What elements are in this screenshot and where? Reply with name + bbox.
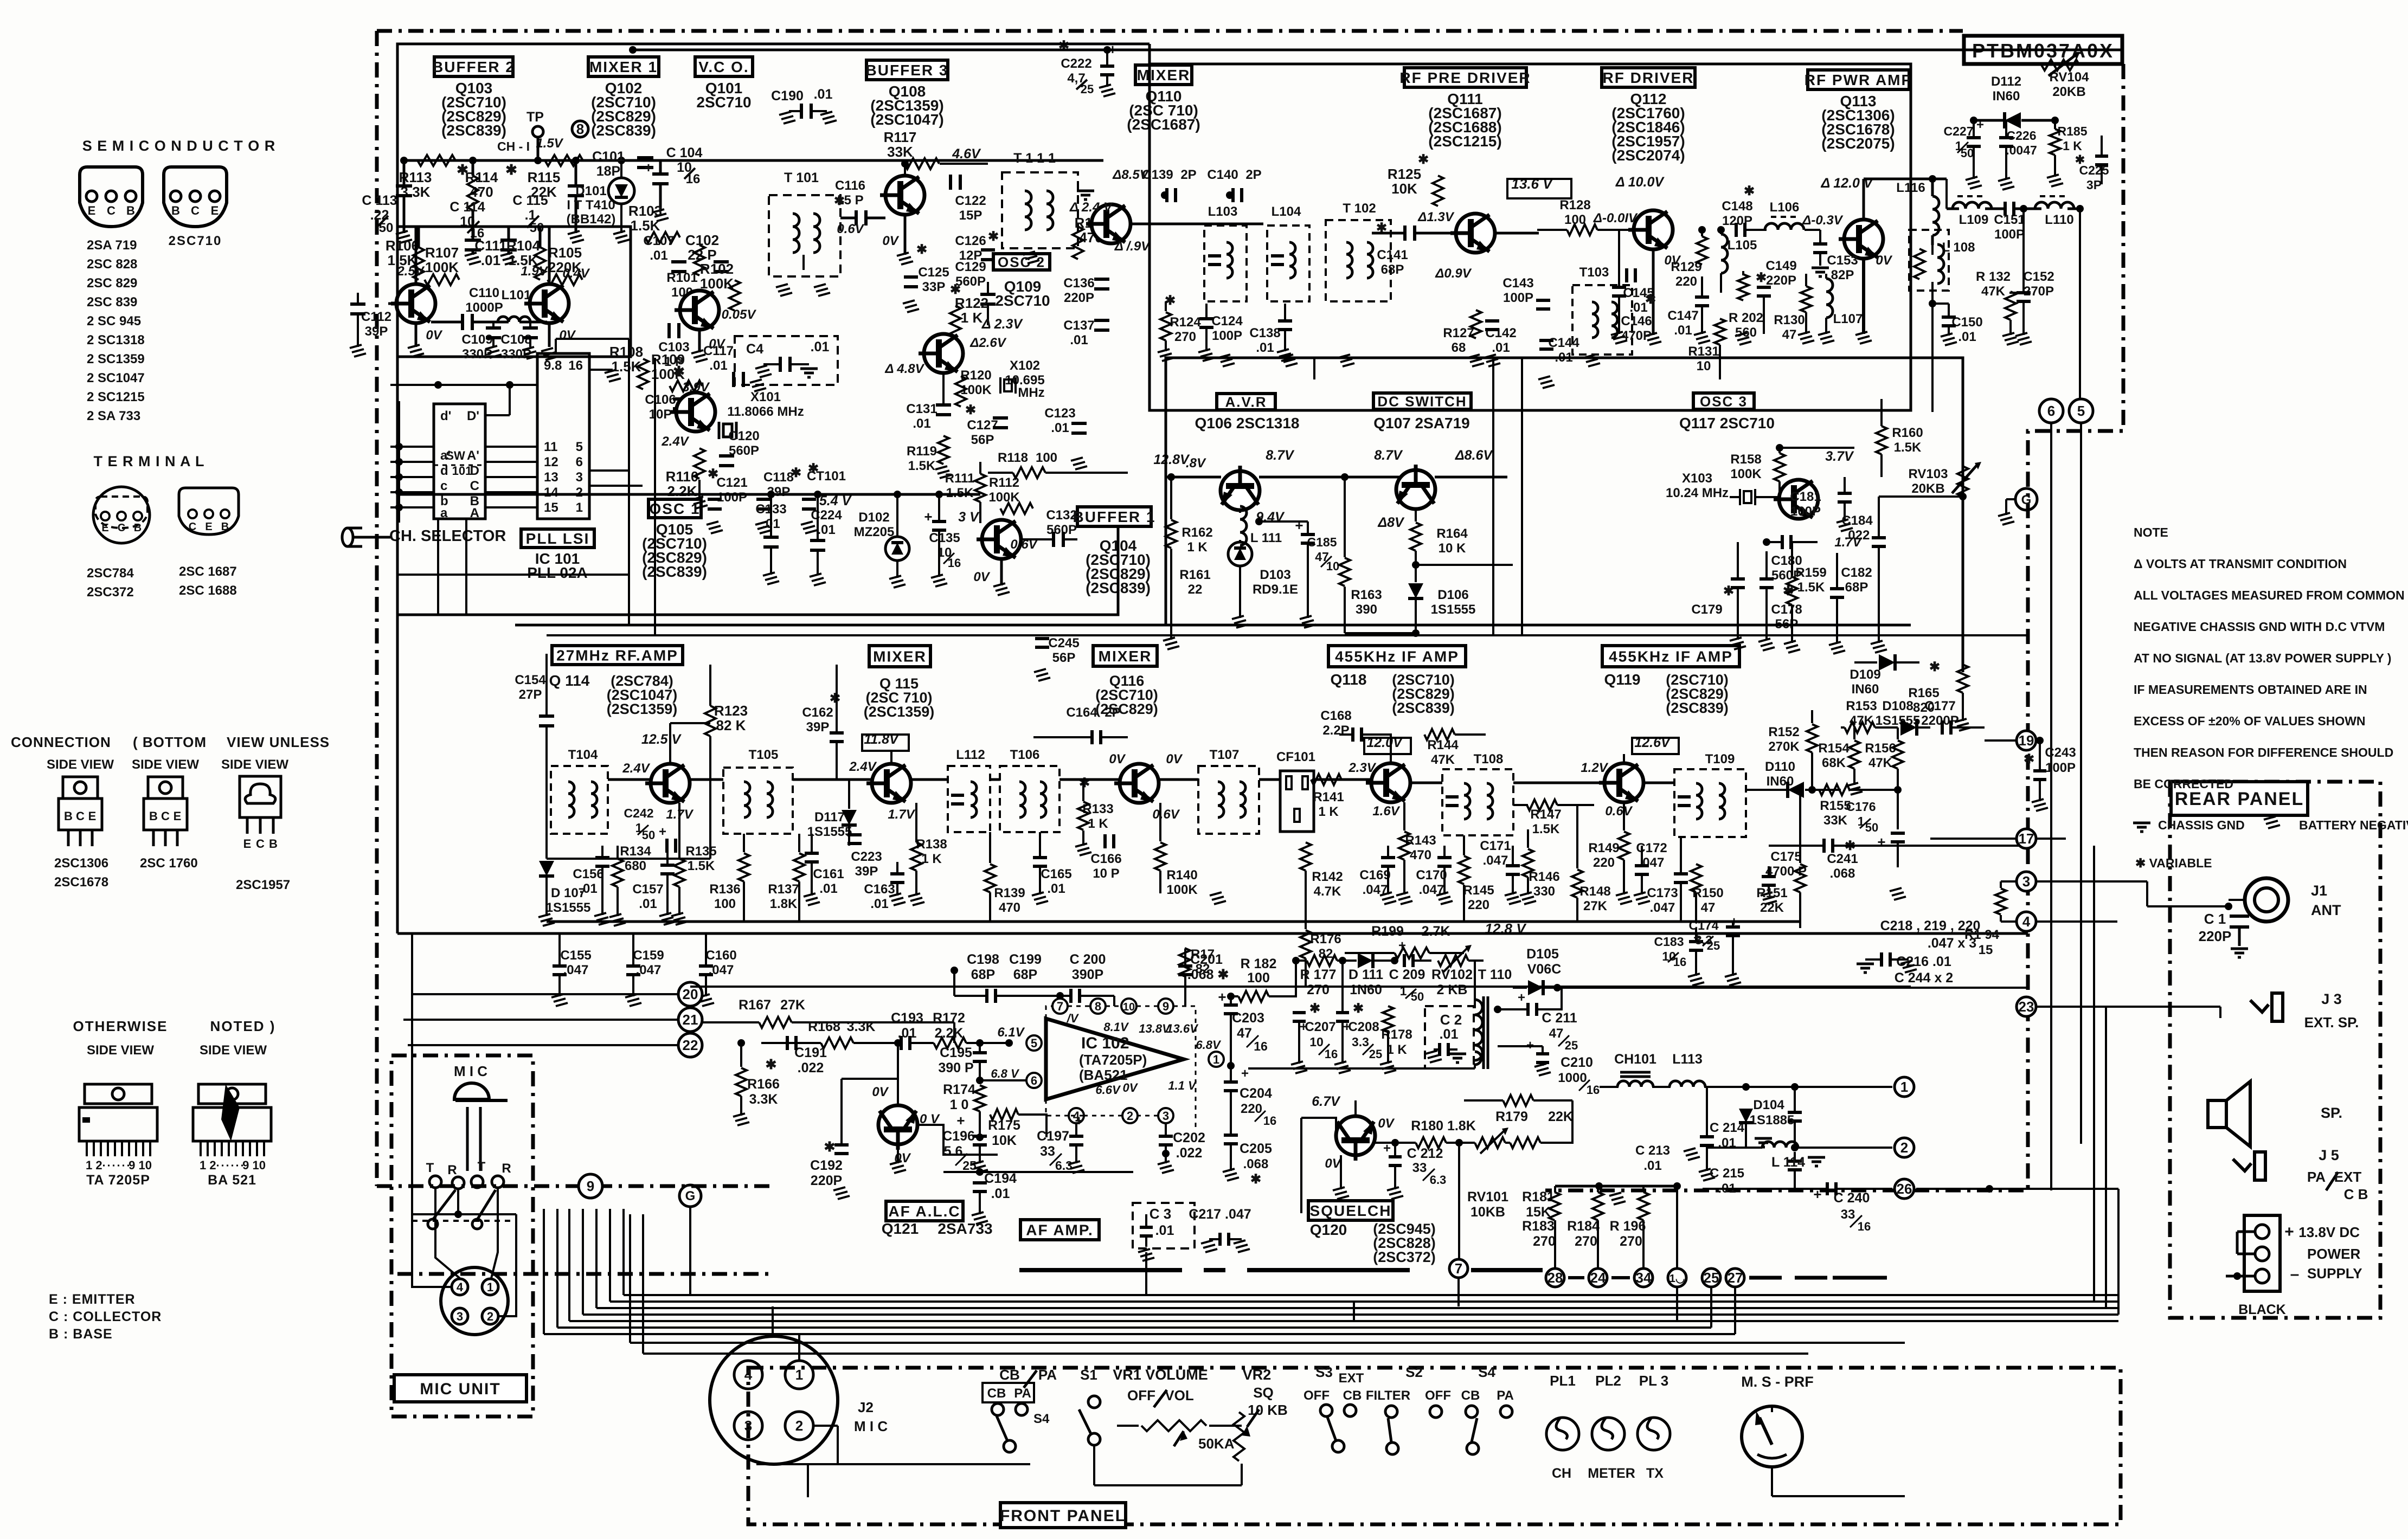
main schematic dash-dot border left xyxy=(375,31,379,1186)
svg-text:MHz: MHz xyxy=(1018,385,1044,400)
svg-text:1.1 V: 1.1 V xyxy=(1168,1079,1197,1092)
wire q107 out xyxy=(1435,476,1507,479)
svg-text:(2SC2074): (2SC2074) xyxy=(1611,147,1685,164)
svg-text:68P: 68P xyxy=(1381,262,1404,277)
transistor Q104 xyxy=(977,520,1021,559)
svg-text:2: 2 xyxy=(487,1310,493,1323)
svg-text:C179: C179 xyxy=(1691,602,1722,617)
svg-text:C243: C243 xyxy=(2045,745,2076,760)
svg-text:E: E xyxy=(174,809,182,823)
gnd Q104 xyxy=(1000,559,1003,585)
svg-text:SP.: SP. xyxy=(2321,1105,2342,1121)
svg-text:1: 1 xyxy=(1213,1053,1219,1066)
svg-text:20KB: 20KB xyxy=(1911,481,1944,496)
svg-text:CB: CB xyxy=(999,1367,1020,1383)
wire Q103 collector xyxy=(415,227,418,284)
svg-text:220P: 220P xyxy=(811,1173,842,1188)
svg-text:47K: 47K xyxy=(1868,756,1893,770)
gnd Q112 xyxy=(1652,249,1655,335)
gnd Q103 emitter xyxy=(415,323,418,347)
svg-text:C205: C205 xyxy=(1240,1141,1272,1156)
block 455KHz IF AMP Q118 xyxy=(1328,646,1466,667)
svg-text:(2SC1047): (2SC1047) xyxy=(870,111,943,128)
bus rear connectors xyxy=(1930,845,2094,846)
legend terminal can dashed xyxy=(93,487,150,543)
svg-text:C B: C B xyxy=(2344,1186,2368,1202)
svg-text:T107: T107 xyxy=(1210,748,1240,762)
svg-text:47K: 47K xyxy=(1981,284,2006,299)
svg-text:2: 2 xyxy=(795,1418,803,1434)
svg-text:D109: D109 xyxy=(1850,667,1880,682)
svg-text:MIC UNIT: MIC UNIT xyxy=(420,1380,500,1398)
block DC SWITCH xyxy=(1373,393,1471,409)
svg-text:R180 1.8K: R180 1.8K xyxy=(1411,1118,1476,1134)
svg-text:C172: C172 xyxy=(1636,841,1667,855)
svg-text:10 K: 10 K xyxy=(1439,541,1466,556)
svg-text:SQUELCH: SQUELCH xyxy=(1310,1202,1392,1219)
svg-text:R143: R143 xyxy=(1405,833,1436,848)
svg-text:AT NO SIGNAL (AT 13.8V POW: AT NO SIGNAL (AT 13.8V POWER SUPPLY ) xyxy=(2134,651,2391,665)
svg-text:4: 4 xyxy=(457,1280,464,1294)
svg-text:0.6V: 0.6V xyxy=(837,222,864,236)
svg-text:D': D' xyxy=(467,409,479,423)
svg-text:.01: .01 xyxy=(1047,881,1065,896)
svg-text:J 5: J 5 xyxy=(2319,1147,2339,1163)
svg-text:2SC784: 2SC784 xyxy=(87,566,134,581)
svg-text:10K: 10K xyxy=(992,1133,1017,1148)
svg-text:2SC 839: 2SC 839 xyxy=(87,295,137,310)
svg-text:SQ: SQ xyxy=(1253,1385,1274,1401)
IC102 pin4 xyxy=(1069,1108,1084,1123)
svg-text:0.6V: 0.6V xyxy=(1605,804,1633,819)
svg-text:C159: C159 xyxy=(633,948,664,963)
node 23 xyxy=(2017,997,2036,1016)
block A.V.R xyxy=(1217,394,1275,410)
svg-text:Δ /.9V: Δ /.9V xyxy=(1114,239,1151,254)
svg-text:.022: .022 xyxy=(798,1060,824,1076)
PLL IC box xyxy=(537,353,589,519)
C2 dashed box xyxy=(1425,1006,1474,1068)
block RF PWR AMP xyxy=(1808,70,1909,89)
svg-text:.022: .022 xyxy=(1845,528,1870,543)
svg-text:(2SC839): (2SC839) xyxy=(642,563,707,580)
svg-text:47: 47 xyxy=(1549,1026,1564,1041)
svg-text:✱: ✱ xyxy=(1645,292,1656,307)
svg-text:.01: .01 xyxy=(1674,323,1692,338)
node 20 xyxy=(678,982,702,1006)
svg-text:c: c xyxy=(440,479,447,493)
node G xyxy=(2015,488,2037,510)
if strip verticals xyxy=(1588,488,1589,625)
svg-text:R184: R184 xyxy=(1567,1219,1600,1234)
svg-text:R166: R166 xyxy=(747,1077,780,1092)
svg-text:–: – xyxy=(2290,1265,2300,1283)
wire dc switch bottom xyxy=(1345,632,1416,634)
mic unit wires xyxy=(435,1188,460,1278)
main schematic dash-dot border top xyxy=(377,29,1963,33)
svg-text:6.6V: 6.6V xyxy=(1095,1083,1121,1097)
svg-text:L 114: L 114 xyxy=(1771,1155,1805,1170)
svg-text:1 K: 1 K xyxy=(2063,139,2082,153)
svg-text:.01: .01 xyxy=(1051,421,1069,435)
svg-text:2 SC1047: 2 SC1047 xyxy=(87,371,145,385)
svg-text:C147: C147 xyxy=(1667,308,1698,323)
svg-text:M I C: M I C xyxy=(454,1063,487,1079)
svg-text:R142: R142 xyxy=(1312,870,1343,884)
svg-text:T 102: T 102 xyxy=(1343,201,1376,216)
svg-text:TP: TP xyxy=(526,110,544,125)
svg-text:C162: C162 xyxy=(802,705,833,720)
svg-text:(2SC1687): (2SC1687) xyxy=(1127,116,1200,133)
bus pll right xyxy=(589,469,629,472)
svg-text:MIXER: MIXER xyxy=(873,648,927,665)
svg-text:T 110: T 110 xyxy=(1478,967,1512,982)
svg-text:R159: R159 xyxy=(1795,565,1826,580)
bus v x1208 xyxy=(654,358,656,635)
SP speaker xyxy=(2208,1100,2226,1128)
svg-text:C 215: C 215 xyxy=(1710,1166,1744,1181)
svg-text:17: 17 xyxy=(2019,830,2034,847)
svg-text:C124: C124 xyxy=(1211,314,1243,329)
svg-text:C 115: C 115 xyxy=(512,193,548,208)
inner border AVR row box xyxy=(1166,358,1963,672)
svg-text:R174: R174 xyxy=(943,1082,975,1097)
svg-text:R147: R147 xyxy=(1530,807,1561,822)
legend package BA521 xyxy=(198,1084,266,1104)
svg-text:R102: R102 xyxy=(700,261,734,277)
svg-text:Q118: Q118 xyxy=(1331,671,1367,688)
gnd Q101 xyxy=(698,330,701,352)
svg-text:100P: 100P xyxy=(2045,761,2076,775)
svg-text:220P: 220P xyxy=(1766,273,1796,288)
svg-text:C201: C201 xyxy=(1190,952,1223,967)
svg-text:L112: L112 xyxy=(956,748,985,762)
svg-text:RF DRIVER: RF DRIVER xyxy=(1603,69,1694,86)
svg-text:1 0: 1 0 xyxy=(950,1097,969,1112)
svg-text:NEGATIVE CHASSIS GND WITH: NEGATIVE CHASSIS GND WITH D.C VTVM xyxy=(2134,620,2385,634)
svg-text:RD9.1E: RD9.1E xyxy=(1253,582,1298,597)
svg-text:C110: C110 xyxy=(469,286,499,300)
svg-text:12.5 V: 12.5 V xyxy=(641,732,682,747)
svg-text:.01: .01 xyxy=(870,897,888,911)
svg-text:+: + xyxy=(1295,517,1303,533)
svg-text:8: 8 xyxy=(576,121,584,137)
svg-text:.068: .068 xyxy=(1243,1157,1269,1171)
svg-text:✱: ✱ xyxy=(1309,1001,1320,1016)
svg-text:C126: C126 xyxy=(955,234,986,248)
rail y1700 xyxy=(547,920,1800,923)
ch selector shaft xyxy=(342,528,353,546)
svg-text:220P: 220P xyxy=(1064,291,1094,305)
svg-text:15K: 15K xyxy=(1526,1205,1551,1220)
wire Q102 collector xyxy=(548,227,551,284)
svg-text:R162: R162 xyxy=(1181,525,1212,540)
svg-text:C138: C138 xyxy=(1249,326,1280,340)
svg-text:D110: D110 xyxy=(1765,759,1795,774)
svg-text:2SC 829: 2SC 829 xyxy=(87,276,137,291)
svg-text:✱: ✱ xyxy=(457,162,468,178)
svg-text:3: 3 xyxy=(576,470,583,485)
svg-text:.068 ✱: .068 ✱ xyxy=(1187,967,1229,982)
transistor Q108 xyxy=(880,176,924,215)
node G2 xyxy=(679,1185,701,1207)
legend package TA7205P xyxy=(85,1084,152,1104)
IC102 pin2 xyxy=(1122,1108,1138,1123)
power supply wires xyxy=(2237,1231,2255,1233)
svg-text:270: 270 xyxy=(1307,982,1330,997)
svg-text:25: 25 xyxy=(962,1158,977,1173)
svg-text:C226: C226 xyxy=(2007,128,2037,143)
svg-text:10K: 10K xyxy=(1391,181,1417,197)
svg-text:L105: L105 xyxy=(1728,238,1757,253)
svg-text:0V: 0V xyxy=(426,328,442,343)
svg-text:D103: D103 xyxy=(1260,568,1290,582)
svg-text:G: G xyxy=(685,1189,696,1203)
svg-text:OFF: OFF xyxy=(1303,1388,1330,1403)
svg-text:OSC 1: OSC 1 xyxy=(649,500,700,517)
svg-text:AF A.L.C: AF A.L.C xyxy=(888,1203,960,1220)
svg-text:BUFFER 3: BUFFER 3 xyxy=(866,62,949,79)
svg-text:.01: .01 xyxy=(709,358,727,373)
svg-text:.01: .01 xyxy=(1643,1158,1661,1173)
svg-text:✱: ✱ xyxy=(965,403,976,417)
svg-text:R127: R127 xyxy=(1443,326,1474,340)
svg-text:330: 330 xyxy=(1533,884,1555,899)
svg-text:ALL VOLTAGES MEASURED FROM: ALL VOLTAGES MEASURED FROM COMMON xyxy=(2134,588,2405,602)
svg-text:C: C xyxy=(189,521,196,533)
J1 ANT jack xyxy=(2245,878,2288,922)
svg-text:Δ 2.3V: Δ 2.3V xyxy=(981,317,1024,332)
svg-text:MIXER: MIXER xyxy=(1099,648,1152,665)
svg-text:R105: R105 xyxy=(548,244,582,261)
svg-text:C183: C183 xyxy=(1654,935,1684,949)
svg-text:24: 24 xyxy=(1590,1270,1606,1286)
gnd Q113 xyxy=(1862,259,1865,334)
svg-text:C190: C190 xyxy=(771,88,804,104)
svg-text:R136: R136 xyxy=(709,882,740,897)
svg-text:CHASSIS GND: CHASSIS GND xyxy=(2158,818,2245,832)
svg-text:C210: C210 xyxy=(1561,1055,1593,1070)
wire q108 r117 xyxy=(904,164,906,176)
svg-text:(2SC839): (2SC839) xyxy=(1392,700,1455,716)
svg-text:AF AMP.: AF AMP. xyxy=(1026,1222,1093,1239)
svg-text:15P: 15P xyxy=(959,208,983,223)
svg-text:S3: S3 xyxy=(1315,1364,1333,1380)
transistor Q117 xyxy=(1774,480,1818,519)
svg-text:C 114: C 114 xyxy=(450,199,485,215)
squelch Q120 xyxy=(1336,1116,1375,1161)
svg-text:+: + xyxy=(956,1112,965,1129)
svg-text:0.05V: 0.05V xyxy=(722,307,757,322)
svg-text:✱: ✱ xyxy=(950,282,961,297)
svg-text:S2: S2 xyxy=(1405,1364,1423,1380)
svg-text:(2SC839): (2SC839) xyxy=(591,122,656,139)
svg-text:FILTER: FILTER xyxy=(1366,1388,1410,1403)
svg-text:C148: C148 xyxy=(1722,199,1752,214)
svg-text:100K: 100K xyxy=(988,490,1020,505)
svg-text:+: + xyxy=(1398,938,1406,953)
svg-text:1.5K: 1.5K xyxy=(1532,822,1560,836)
svg-text:6.1V: 6.1V xyxy=(997,1025,1025,1040)
transistor Q112 xyxy=(1628,210,1673,249)
node 2 filter xyxy=(1895,1138,1914,1157)
svg-text:.01: .01 xyxy=(819,881,837,896)
svg-text:8.1V: 8.1V xyxy=(1103,1020,1129,1034)
IC102 pin dashes xyxy=(1068,1006,1090,1007)
svg-text:✱: ✱ xyxy=(916,242,927,257)
svg-text:D108: D108 xyxy=(1882,699,1913,713)
svg-text:14: 14 xyxy=(544,485,558,500)
svg-text:5: 5 xyxy=(2077,403,2085,419)
IC102 pin8 xyxy=(1090,999,1106,1014)
svg-text:18P: 18P xyxy=(596,164,620,179)
IC102 pin10 xyxy=(1121,999,1136,1014)
svg-text:DC SWITCH: DC SWITCH xyxy=(1377,393,1467,409)
svg-text:C 200: C 200 xyxy=(1070,952,1106,967)
svg-text:33: 33 xyxy=(1841,1207,1855,1222)
wire mixer q110 row xyxy=(1131,223,1263,226)
svg-text:2.2K: 2.2K xyxy=(667,483,697,499)
svg-text:9 10: 9 10 xyxy=(242,1158,266,1172)
svg-text:C 240: C 240 xyxy=(1834,1190,1870,1206)
C3 dashed box xyxy=(1133,1203,1195,1248)
transistor Q103 xyxy=(391,284,435,323)
node 34 xyxy=(1634,1268,1653,1287)
svg-text:22K: 22K xyxy=(1760,900,1784,915)
svg-text:C129: C129 xyxy=(955,260,986,274)
svg-text:T E R M I N A L: T E R M I N A L xyxy=(94,453,205,469)
svg-text:R128: R128 xyxy=(1559,198,1590,213)
svg-text:+: + xyxy=(644,159,652,176)
bus right verticals xyxy=(2093,846,2095,1302)
svg-text:27: 27 xyxy=(1728,1270,1743,1286)
svg-text:C217 .047: C217 .047 xyxy=(1189,1207,1251,1222)
svg-text:L103: L103 xyxy=(1208,204,1238,219)
svg-text:S4: S4 xyxy=(1478,1364,1495,1380)
svg-text:A.V.R: A.V.R xyxy=(1225,394,1267,410)
svg-text:C 2: C 2 xyxy=(1440,1012,1462,1028)
svg-text:100K: 100K xyxy=(700,275,734,292)
svg-text:B: B xyxy=(149,809,158,823)
svg-text:11: 11 xyxy=(544,440,557,454)
svg-text:4: 4 xyxy=(744,1367,753,1383)
svg-text:22: 22 xyxy=(683,1037,698,1053)
svg-text:POWER: POWER xyxy=(2307,1246,2360,1262)
svg-text:✱: ✱ xyxy=(1929,660,1940,674)
svg-text:47K: 47K xyxy=(1431,752,1455,767)
svg-text:C166: C166 xyxy=(1090,852,1121,866)
svg-text:C169: C169 xyxy=(1359,868,1390,883)
wire node5/6 stems xyxy=(2050,423,2052,1190)
svg-text:C197: C197 xyxy=(1037,1129,1069,1144)
legend package 2SC1306 xyxy=(63,777,98,799)
svg-text:IN60: IN60 xyxy=(1767,774,1794,789)
ch selector to PLL wires xyxy=(485,446,537,448)
svg-text:C121: C121 xyxy=(716,475,747,490)
svg-text:7: 7 xyxy=(1455,1260,1462,1277)
node 22 xyxy=(678,1033,702,1057)
svg-text:C192: C192 xyxy=(810,1158,843,1173)
note chassis gnd legend xyxy=(2133,822,2150,825)
node 9 on border xyxy=(579,1174,602,1198)
svg-text:R139: R139 xyxy=(994,886,1025,900)
S1 wire xyxy=(1093,1445,1095,1485)
svg-text:B: B xyxy=(171,204,180,217)
svg-text:100K: 100K xyxy=(425,259,459,275)
ch selector switch box xyxy=(434,404,485,519)
svg-text:R183: R183 xyxy=(1522,1219,1555,1234)
svg-text:RV103: RV103 xyxy=(1909,467,1948,481)
bus J3 wires xyxy=(1946,1295,1947,1296)
svg-text:R146: R146 xyxy=(1529,870,1559,884)
svg-text:C108: C108 xyxy=(500,332,531,347)
transistor Q106 xyxy=(1221,466,1260,510)
svg-text:1: 1 xyxy=(795,1367,803,1383)
svg-text:C165: C165 xyxy=(1041,867,1071,881)
svg-text:/V: /V xyxy=(1067,1012,1080,1025)
svg-text:R168: R168 xyxy=(808,1019,840,1034)
svg-text:T104: T104 xyxy=(568,748,598,762)
svg-text:0V: 0V xyxy=(1378,1116,1395,1131)
svg-text:2SC372: 2SC372 xyxy=(87,585,134,600)
svg-text:C117: C117 xyxy=(703,344,734,358)
svg-text:C153: C153 xyxy=(1827,253,1858,268)
svg-text:T106: T106 xyxy=(1010,748,1040,762)
svg-text:R 202: R 202 xyxy=(1729,311,1763,325)
svg-text:7: 7 xyxy=(1057,1000,1063,1013)
svg-text:C155: C155 xyxy=(560,948,591,963)
svg-text:1 2: 1 2 xyxy=(200,1158,216,1172)
svg-text:R152: R152 xyxy=(1768,725,1799,739)
svg-text:.01: .01 xyxy=(811,339,830,355)
svg-text:C178: C178 xyxy=(1771,602,1802,617)
legend terminal can 2 xyxy=(179,488,239,535)
svg-text:PL2: PL2 xyxy=(1595,1373,1621,1389)
avr rail xyxy=(1166,476,1221,479)
svg-text:.01: .01 xyxy=(1958,330,1976,344)
svg-text:5: 5 xyxy=(576,440,583,454)
svg-text:R124: R124 xyxy=(1170,315,1201,330)
node 8 circle xyxy=(572,121,588,137)
svg-text:IF MEASUREMENTS OBTAINED ARE: IF MEASUREMENTS OBTAINED ARE IN xyxy=(2134,682,2367,697)
svg-text:100K: 100K xyxy=(1730,467,1762,481)
svg-text:C : COLLECTOR: C : COLLECTOR xyxy=(49,1309,162,1324)
svg-text:50KA: 50KA xyxy=(1198,1435,1235,1452)
capacitor C4 box xyxy=(735,336,838,385)
svg-text:✱: ✱ xyxy=(766,1057,777,1072)
svg-text:0.4V: 0.4V xyxy=(562,266,590,281)
svg-text:(2SC2075): (2SC2075) xyxy=(1821,135,1895,152)
svg-text:E: E xyxy=(88,809,97,823)
svg-text:B : BASE: B : BASE xyxy=(49,1326,113,1342)
svg-text:Q119: Q119 xyxy=(1604,671,1641,688)
transistor Q113 xyxy=(1839,220,1883,259)
svg-text:✱: ✱ xyxy=(1744,184,1755,198)
block 27MHz RF.AMP xyxy=(552,646,683,665)
svg-text:L101: L101 xyxy=(502,288,531,302)
svg-text:R109: R109 xyxy=(651,351,685,368)
svg-text:1N60: 1N60 xyxy=(1350,982,1382,997)
svg-text:PLL LSI: PLL LSI xyxy=(526,530,590,547)
svg-text:1S1555: 1S1555 xyxy=(546,900,591,915)
svg-text:25: 25 xyxy=(1565,1039,1578,1052)
svg-text:T109: T109 xyxy=(1705,752,1735,767)
svg-text:J1: J1 xyxy=(2311,883,2327,899)
svg-text:T105: T105 xyxy=(749,748,779,762)
block SQUELCH xyxy=(1308,1201,1393,1220)
wires to nodes 20 21 22 xyxy=(412,993,678,995)
svg-text:THEN REASON FOR DIFFERENCE: THEN REASON FOR DIFFERENCE SHOULD xyxy=(2134,745,2393,759)
